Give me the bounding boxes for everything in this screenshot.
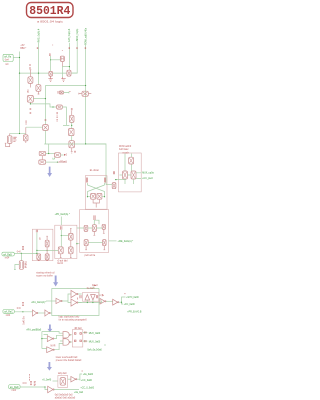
pin hatch pair [30, 381, 35, 386]
svg-text:for an actuating propagate0: for an actuating propagate0 [59, 318, 88, 321]
wire ROW_IN long [86, 45, 106, 185]
wire Q24 bottom stub [70, 254, 72, 258]
wire R2 bottom L [5, 143, 10, 146]
wire row133 [10, 132, 26, 134]
wire Q8 bottom stub [71, 148, 73, 153]
svg-text:lower overhead0 0a0: lower overhead0 0a0 [56, 356, 78, 359]
svg-text:ro adr: ro adr [123, 152, 129, 155]
wire Q1 source stub [29, 83, 31, 87]
transistor Q21b [45, 254, 49, 260]
wire into R4 [53, 380, 58, 382]
resistor R2 [7, 136, 12, 144]
svg-text:BB0.*: BB0.* [20, 48, 26, 50]
wire U5 row228 [88, 227, 102, 229]
pin hatch U1 left [86, 178, 87, 183]
wire U5 gate col [94, 220, 99, 225]
block R4 outline [58, 375, 68, 387]
wire Q9 down jog [45, 130, 48, 153]
block U1 outline [85, 176, 107, 210]
wire down to R3 [20, 253, 22, 260]
svg-text:pw0 a4 0a: pw0 a4 0a [85, 255, 96, 257]
superbuffer U8 box [83, 293, 99, 302]
wire bus row [20, 72, 78, 74]
wire Q7-Q8 [71, 136, 73, 141]
svg-text:starting refresh ctl: starting refresh ctl [36, 272, 55, 275]
pin tick upper right [74, 150, 76, 153]
pin tick CAS_IN [69, 47, 70, 50]
port box56 R1 [57, 105, 63, 109]
svg-text:8501R4: 8501R4 [29, 4, 70, 18]
wire node row103 [30, 104, 56, 107]
svg-text:+CC_0_0a00: +CC_0_0a00 [80, 388, 94, 390]
transistor Q1 [28, 77, 33, 84]
svg-text:0a▶0: 0a▶0 [92, 284, 98, 287]
svg-text:0): 0) [39, 238, 41, 240]
svg-text:+SYN_0a00: +SYN_0a00 [126, 297, 139, 299]
wire CAS_IN [69, 43, 71, 70]
junction row-frame [85, 85, 86, 86]
svg-text:+RA_padB0a0: +RA_padB0a0 [26, 329, 42, 332]
speck near B8 [52, 45, 63, 51]
wire U12 out [50, 312, 51, 314]
svg-text:EL dictat: EL dictat [90, 169, 99, 172]
pin hatch cap left [57, 92, 59, 93]
svg-text:ROW_ad(A).40a: ROW_ad(A).40a [84, 27, 87, 45]
svg-text:B0: B0 [28, 89, 30, 93]
transistor Q25 [84, 225, 88, 231]
block U2 outline [119, 153, 142, 192]
svg-text:+CC_pre0: +CC_pre0 [142, 177, 153, 180]
pin hatch IN2 wire [22, 246, 23, 250]
transistor Q13 [55, 153, 61, 158]
wire U15 U16 outs [70, 335, 72, 342]
svg-text:+0_0a40: +0_0a40 [42, 379, 52, 381]
wire Q11-Q12 stub [41, 156, 43, 160]
wire U11-U12 [38, 312, 45, 314]
transistor Q5 [67, 70, 71, 76]
wire C1 right [64, 92, 69, 94]
junction [19, 57, 20, 58]
wire Q10 bottom [25, 141, 27, 143]
wire row162 cont [58, 161, 67, 163]
wire to D box [51, 59, 61, 61]
wire U1 merge [93, 199, 99, 207]
svg-text:8: 8 [77, 298, 79, 300]
wire Q22 top stub [70, 229, 72, 234]
wire U18 out [77, 374, 82, 380]
junction q2r [45, 98, 46, 99]
pin tick col71 top [71, 109, 73, 110]
svg-text:aA_Ra: aA_Ra [4, 56, 12, 59]
transistor Q23 [58, 247, 63, 254]
marks in U17 [74, 333, 81, 342]
wire IN2 row [14, 252, 37, 254]
svg-text:m04: m04 [12, 390, 17, 392]
wire IN4 row [20, 387, 48, 390]
svg-text:m0: m0 [5, 64, 9, 66]
buffer U7a [71, 290, 78, 297]
wire U8 bottom rail [78, 300, 102, 303]
svg-text:m04: m04 [5, 257, 10, 259]
wire MUX_IN [71, 41, 77, 73]
svg-text:+CC_0a00: +CC_0a00 [81, 380, 93, 382]
svg-text:RAS_0a(A).4: RAS_0a(A).4 [37, 28, 40, 42]
transistor Q6 [69, 115, 74, 122]
junction bc [41, 338, 42, 339]
transistor Q32 on ROW wire [82, 91, 88, 96]
svg-text:logic duplicated only: logic duplicated only [59, 316, 81, 319]
svg-text:0a40.8a: 0a40.8a [24, 316, 26, 325]
junction jog [48, 153, 49, 154]
junction row162 [57, 162, 58, 163]
wire U8 out [99, 294, 102, 296]
pin hatch row127 [25, 121, 27, 124]
frame F1 [52, 289, 99, 316]
off-page arrow A4 [47, 362, 52, 371]
wire U2 out labels [136, 173, 142, 179]
transistor Q20 [45, 240, 49, 247]
svg-text:0a 04: 0a 04 [57, 263, 63, 265]
svg-text:+CC_0a00: +CC_0a00 [124, 304, 136, 306]
block U5 outline [80, 210, 109, 253]
pin hatch bottom left [28, 374, 30, 381]
nand gate U15 [63, 332, 70, 338]
wire Q20 top stub [46, 236, 48, 240]
buffer U7b [71, 299, 78, 306]
pin hatch U3 top [36, 230, 37, 232]
inverter U18 [71, 377, 77, 382]
wire U5 row242 [88, 242, 102, 244]
pin hatch U4 top [61, 226, 62, 229]
junction col50 [50, 59, 51, 60]
transistor Q29 [103, 240, 107, 246]
wire Q20 bottom stub [46, 247, 48, 251]
inverter U10 [113, 299, 119, 305]
wire inv1 in [46, 300, 56, 302]
svg-text:super row buffer: super row buffer [36, 274, 53, 277]
off-page arrow A1 [47, 167, 52, 177]
label right of R2 [13, 137, 16, 141]
pin tick ROW_IN [85, 47, 86, 50]
inverter U12 [45, 310, 50, 316]
port box IN4 [9, 385, 21, 389]
wire Q10 top stub [25, 127, 27, 135]
svg-text:CAS_0a(A).4: CAS_0a(A).4 [68, 28, 71, 42]
transistor Q19 midbox [112, 183, 116, 189]
nand gate U16 [63, 339, 70, 345]
wire long row144 [44, 143, 106, 145]
wire Q22 bottom stub [70, 240, 72, 247]
wire RAS_IN [38, 43, 40, 85]
junction cas66 [69, 66, 70, 67]
wire Q32 side stubs [79, 93, 92, 95]
svg-text:ROW addr0: ROW addr0 [119, 145, 132, 148]
wire row162 [46, 161, 58, 163]
svg-text:NVR: NVR [51, 345, 56, 347]
junction u4 [61, 235, 62, 236]
capacitor C1 [59, 91, 63, 94]
transistor Q16 [129, 157, 134, 164]
svg-text:m04: m04 [6, 315, 11, 317]
pin label col55 [56, 112, 58, 121]
svg-text:buf0 later: buf0 later [119, 148, 129, 151]
off-page arrow A3 [47, 325, 52, 333]
svg-text:+RA_0a/A(A).*: +RA_0a/A(A).* [31, 301, 46, 304]
wire gate col 50 [50, 56, 52, 71]
junction in2b [21, 253, 22, 254]
pin tick MUX_IN [76, 47, 77, 50]
svg-text:aA_RaD: aA_RaD [10, 386, 19, 389]
junction q19 [115, 179, 116, 180]
wire U3 row250 [37, 249, 58, 251]
transistor Q10 [23, 135, 28, 141]
wire bottom cluster rails [42, 332, 63, 349]
transistor Q22 [69, 233, 74, 240]
block U4 outline [55, 225, 77, 258]
ground G1 [48, 76, 52, 81]
off-page arrow A2 [53, 276, 58, 287]
port box IN3 [3, 310, 14, 314]
tick u10 [124, 293, 125, 295]
transistor Q24 [69, 247, 74, 254]
junction col71 [71, 125, 72, 126]
wire U5 out [109, 240, 117, 242]
tick U8 out [102, 294, 104, 296]
tick C1 end [69, 90, 70, 92]
label right of R3 [25, 262, 27, 268]
tick right [104, 344, 106, 346]
resistor R3 [19, 261, 23, 270]
junction bus-ras [38, 73, 39, 74]
junction u10 [121, 302, 122, 303]
transistor Q15 [97, 193, 102, 199]
svg-text:B8: B8 [50, 52, 52, 56]
wire Q19 left [106, 184, 112, 186]
transistor Q18 [131, 171, 136, 179]
block U3 outline [32, 229, 53, 261]
junction u4r [76, 243, 77, 244]
junction u3b [47, 250, 48, 251]
wire Q2 bottom [29, 102, 31, 104]
wire U13 out [54, 335, 63, 341]
tick below Q21b [46, 259, 48, 261]
junction U8a [87, 302, 88, 303]
wire U10 out branches [119, 297, 126, 304]
wire U2 links [125, 175, 134, 184]
pin tick above Q9 [45, 120, 47, 121]
pin hatch U1 right [104, 178, 105, 183]
pulldown driver in U8 [91, 295, 96, 301]
inverter U9 [100, 299, 106, 305]
pullup driver in U8 [85, 295, 90, 301]
svg-text:+0a_0a0: +0a_0a0 [74, 392, 84, 394]
wire inv1 out [62, 294, 71, 303]
pin hatch U8 right [96, 295, 97, 298]
transistor Q14 [91, 193, 96, 199]
title box 8501R4 [27, 3, 74, 18]
wire mid frame top [45, 85, 85, 87]
wire U3 col [36, 232, 38, 254]
svg-text:0=0: 0=0 [17, 308, 22, 310]
port box IN1 [3, 54, 13, 61]
junction q2b [30, 103, 31, 104]
wire Q19 right row [115, 179, 126, 181]
diode D1 box [60, 56, 64, 61]
wire U4 col [60, 230, 62, 247]
svg-text:+PR_B.A/G.B: +PR_B.A/G.B [127, 310, 142, 313]
wire Q3 stub [38, 91, 40, 94]
wire IN3 row [14, 311, 32, 313]
svg-text:0a4: 0a4 [5, 59, 10, 61]
transistor Q27 [102, 224, 105, 229]
svg-text:r0 adr labl: r0 adr labl [57, 259, 68, 262]
wire U17 outs [83, 333, 88, 342]
tick below Q21a [38, 259, 40, 261]
junction row144 [85, 143, 86, 144]
pin hatch U17 out1 [85, 331, 86, 333]
junction bus-left [19, 73, 20, 74]
wire U4 out right [77, 228, 84, 244]
wire D1 bottom chain [61, 62, 63, 67]
wire U5 col mid [93, 229, 104, 235]
wire D1 to CAS col [62, 66, 69, 68]
inverter U19 [48, 386, 55, 393]
pin tick RAS_IN [37, 47, 38, 50]
wire Q1 drain stub [30, 70, 32, 77]
pin label above Q1 [29, 64, 30, 68]
svg-text:MUX_0a00: MUX_0a00 [89, 333, 101, 335]
wire left rail [19, 52, 21, 134]
wire into box3b top [60, 217, 62, 226]
wire col71 top stub [71, 111, 73, 116]
transistor Q9 [43, 125, 49, 131]
transistor Q30 [60, 378, 65, 386]
pin hatch IN3 [22, 302, 23, 306]
wire from IN1 [13, 57, 19, 59]
wire U5 bottoms [85, 246, 105, 250]
svg-text:a 8501.04 logic: a 8501.04 logic [37, 22, 64, 24]
junction rail-row133 [19, 133, 20, 134]
svg-text:a0a0a0 0a0 a0a0a0: a0a0a0 0a0 a0a0a0 [55, 397, 76, 399]
transistor Q3 [36, 85, 41, 92]
svg-text:+0a_0a00: +0a_0a00 [83, 374, 94, 376]
inverter U11 [33, 310, 38, 316]
svg-text:4R 0a0: 4R 0a0 [74, 328, 82, 330]
junction in2 [36, 253, 37, 254]
junction U8b [92, 302, 93, 303]
pin hatch U17 out2 [85, 340, 86, 342]
svg-text:aA_RaB: aA_RaB [3, 253, 12, 256]
svg-text:+WE_0a/A(A).*: +WE_0a/A(A).* [118, 240, 134, 243]
svg-text:MUX_0a(A): MUX_0a(A) [76, 28, 79, 40]
ground G2 [61, 77, 65, 81]
wire R2 top red [9, 134, 11, 136]
wire U2 gate left [120, 174, 123, 176]
svg-text:i,A: i,A [52, 157, 55, 160]
wire U1 cross [88, 183, 105, 197]
svg-text:+PD_0a/A(A).*: +PD_0a/A(A).* [55, 213, 70, 216]
wire U9-U10 [106, 300, 113, 302]
junction U1 taps [87, 196, 88, 197]
transistor Q12 [39, 160, 46, 164]
wire Q6-Q7 [71, 122, 73, 128]
wire U2 col [125, 154, 131, 172]
wire R3 left ground [14, 265, 19, 270]
port box IN2 [2, 252, 14, 256]
svg-text:tally-0a0: tally-0a0 [58, 372, 67, 375]
svg-text:prevent the 0a0a0 0a0a0: prevent the 0a0a0 0a0a0 [56, 359, 82, 362]
junction box56 left [52, 106, 53, 107]
transistor Q26 [92, 225, 96, 232]
transistor Q17 [123, 171, 128, 179]
pin hatch above Q19 [113, 171, 114, 174]
svg-text:aA_RaC: aA_RaC [4, 311, 13, 314]
wire U7 outs [78, 294, 82, 303]
wire frame left col [44, 86, 46, 125]
wire Q21b top stub [46, 250, 48, 254]
wire R4 to U18 [68, 378, 71, 380]
svg-text:MUX_up0a: MUX_up0a [142, 172, 154, 174]
inverter U13 [47, 336, 54, 342]
wire U14 out [42, 344, 63, 350]
transistor Q21a [37, 254, 41, 260]
svg-text:0a 0ar0: 0a 0ar0 [87, 287, 96, 290]
transistor Q4 [49, 71, 53, 76]
wire U8 top stub [92, 287, 94, 289]
junction in3 [22, 311, 23, 312]
transistor Q8 [69, 141, 75, 148]
wire Q13 out [61, 154, 64, 156]
tick u18 [82, 370, 83, 372]
junction u3a [36, 250, 37, 251]
wire U19 out [54, 389, 79, 391]
svg-text:▶0: ▶0 [64, 154, 68, 157]
wire Q14 Q15 taps [88, 196, 105, 198]
transistor Q28 [84, 240, 88, 246]
svg-text:MUX_0a00: MUX_0a00 [89, 341, 101, 343]
inverter U14 [47, 347, 55, 353]
svg-text:0aA_0a,0r0a0: 0aA_0a,0r0a0 [87, 349, 102, 352]
pin hatch U5 top [94, 215, 95, 220]
block U17 outline [72, 330, 83, 347]
junction in4 [44, 386, 45, 387]
svg-text:0=0: 0=0 [23, 383, 28, 385]
pin hatch U8 left [80, 295, 81, 298]
wire Q2 out right [33, 98, 45, 100]
transistor Q7 [68, 129, 74, 136]
transistor Q2 [27, 95, 33, 102]
wire gate row127 [26, 126, 43, 128]
wire box56 right chain [62, 107, 69, 125]
wire Q11 to Q13 [46, 153, 55, 155]
inverter U6 [56, 298, 62, 303]
wire U4 gate row [61, 235, 68, 237]
wire down to ground2 [61, 67, 63, 77]
pin hatch below Q2 [30, 109, 32, 114]
transistor Q11 [39, 151, 45, 155]
svg-text:0a0 0a0a0a0 0a0: 0a0 0a0a0a0 0a0 [55, 395, 74, 397]
wire Q23 bottom stub [60, 254, 62, 258]
